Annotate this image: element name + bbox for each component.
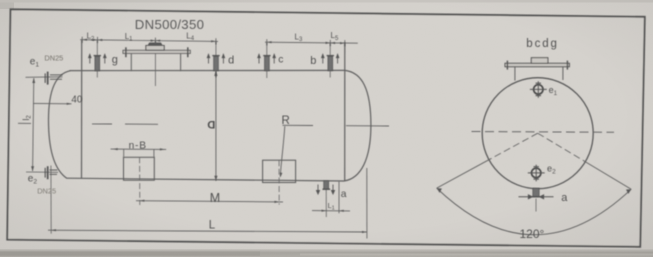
tick at g — [97, 37, 99, 43]
manhole neck left leg — [130, 54, 132, 71]
platform left bolt — [506, 61, 508, 70]
L dimension line — [48, 230, 367, 232]
manhole flange plate — [123, 50, 190, 53]
e2 drop line to L dimension — [50, 166, 52, 234]
top-left corner smudge — [0, 0, 14, 9]
nozzle a arrows — [316, 185, 319, 195]
a ext line — [338, 181, 340, 213]
tick at b — [329, 40, 331, 46]
nozzle e1 end-view symbol — [530, 81, 558, 98]
e1 neck — [50, 75, 63, 79]
n-B ext lines — [123, 149, 125, 157]
tick at tangent — [81, 37, 83, 43]
R leader line — [280, 126, 285, 177]
nozzle a centerline — [325, 181, 327, 217]
left saddle centerline — [139, 157, 141, 205]
right saddle centerline — [278, 160, 280, 204]
tick at c — [266, 39, 268, 45]
nozzle g — [89, 40, 118, 78]
L right extension line — [366, 168, 368, 239]
arrowheads chain A — [82, 39, 216, 43]
manhole centerline — [154, 41, 156, 86]
left saddle — [124, 157, 155, 180]
M dimension line — [136, 201, 283, 202]
manhole cap — [146, 46, 164, 51]
arrowheads chain B — [267, 41, 345, 44]
D dimension line — [215, 71, 217, 181]
wedge radial left (dashed inside circle) — [489, 133, 538, 160]
e2 cross centerlines — [535, 165, 537, 182]
wedge radial right (dashed inside circle) — [538, 133, 586, 162]
dimension 40 line — [33, 102, 72, 104]
e1 flange — [47, 72, 49, 85]
e1 flange circle — [534, 85, 543, 94]
nozzle e2 end-view symbol — [528, 164, 556, 182]
horizontal centerline of tank (long sparse dashes) — [18, 122, 31, 124]
dimension line g-chain — [80, 40, 218, 42]
e1 axis line — [26, 76, 63, 79]
nozzle a neck — [324, 181, 329, 189]
a arrows end view — [519, 195, 533, 199]
e2 neck — [50, 170, 58, 174]
end view horizontal dashed centerline — [472, 131, 615, 134]
nozzle a end-view stub — [519, 188, 569, 211]
tank shell top line — [70, 69, 346, 71]
right saddle — [263, 160, 296, 182]
e2 axis line — [26, 171, 58, 173]
manhole cap ridge — [148, 43, 162, 46]
platform legs — [514, 67, 516, 81]
tank shell bottom line — [67, 178, 345, 181]
vignette — [0, 0, 1, 1]
tick at right tangent — [344, 40, 346, 46]
left dished head — [49, 71, 71, 179]
120 arc — [437, 188, 632, 235]
manhole right bolt — [187, 47, 189, 57]
e2 flange circle — [532, 168, 541, 177]
nozzle c — [258, 42, 284, 78]
platform plate — [505, 63, 569, 66]
tick at d — [215, 38, 217, 44]
tick at manhole center — [154, 38, 156, 44]
a small dimension line — [312, 210, 350, 212]
manhole neck right leg — [180, 54, 182, 71]
n-B dimension line — [111, 148, 167, 150]
platform cap — [531, 58, 548, 64]
manhole left bolt — [125, 47, 127, 57]
end view circle — [482, 78, 593, 189]
bottom scan shadow band — [0, 249, 653, 257]
e1 cross centerlines — [537, 81, 539, 98]
vertical dim line e1-e2 — [33, 78, 34, 171]
nozzle b — [310, 43, 339, 78]
dimension line c-b chain — [265, 42, 358, 43]
e2 flange — [47, 166, 49, 179]
nozzle a flange — [323, 188, 331, 190]
120 degree wedge — [437, 133, 632, 241]
nozzle d — [207, 41, 234, 77]
paper grain — [0, 0, 1, 1]
left head weld/tangent line — [81, 40, 83, 178]
right head weld/tangent line — [344, 42, 346, 180]
platform right bolt — [566, 61, 568, 70]
right dished head — [344, 70, 371, 181]
